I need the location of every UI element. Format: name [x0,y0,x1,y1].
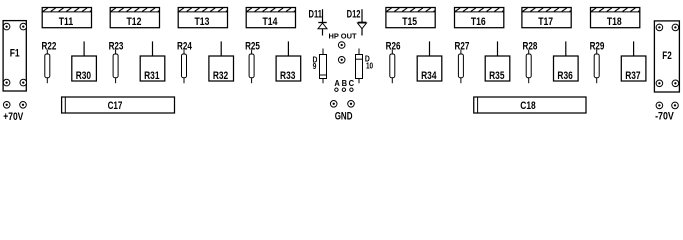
svg-text:10: 10 [366,61,373,71]
svg-text:R32: R32 [213,70,228,82]
svg-text:D12: D12 [347,8,361,20]
svg-text:T12: T12 [127,16,142,28]
svg-text:R29: R29 [590,40,605,52]
svg-text:T17: T17 [538,16,553,28]
svg-text:R37: R37 [625,70,640,82]
svg-text:T11: T11 [59,16,74,28]
svg-text:C17: C17 [108,100,123,112]
svg-text:T14: T14 [263,16,278,28]
svg-text:R27: R27 [454,40,469,52]
svg-text:T13: T13 [195,16,210,28]
svg-text:R35: R35 [489,70,505,82]
svg-text:T16: T16 [471,16,486,28]
svg-text:-70V: -70V [655,111,674,123]
svg-text:R31: R31 [144,70,160,82]
svg-text:R24: R24 [177,40,192,52]
svg-text:R30: R30 [76,70,91,82]
svg-text:F1: F1 [10,48,20,60]
svg-text:R33: R33 [280,70,296,82]
svg-text:HP OUT: HP OUT [329,31,357,40]
svg-text:D11: D11 [309,8,322,20]
svg-text:F2: F2 [662,50,671,62]
svg-text:R25: R25 [245,40,260,52]
svg-text:B: B [342,79,348,88]
svg-text:9: 9 [313,61,317,71]
svg-text:R28: R28 [522,40,537,52]
svg-text:R26: R26 [386,40,401,52]
svg-text:R36: R36 [557,70,573,82]
svg-text:+70V: +70V [3,111,23,123]
svg-text:R34: R34 [421,70,437,82]
svg-text:T18: T18 [607,16,622,28]
svg-text:GND: GND [335,111,353,124]
svg-text:A: A [334,79,340,88]
svg-text:C18: C18 [520,100,536,112]
svg-text:T15: T15 [402,16,417,28]
svg-text:R22: R22 [41,40,56,52]
svg-text:C: C [349,79,355,88]
svg-text:R23: R23 [109,40,124,52]
